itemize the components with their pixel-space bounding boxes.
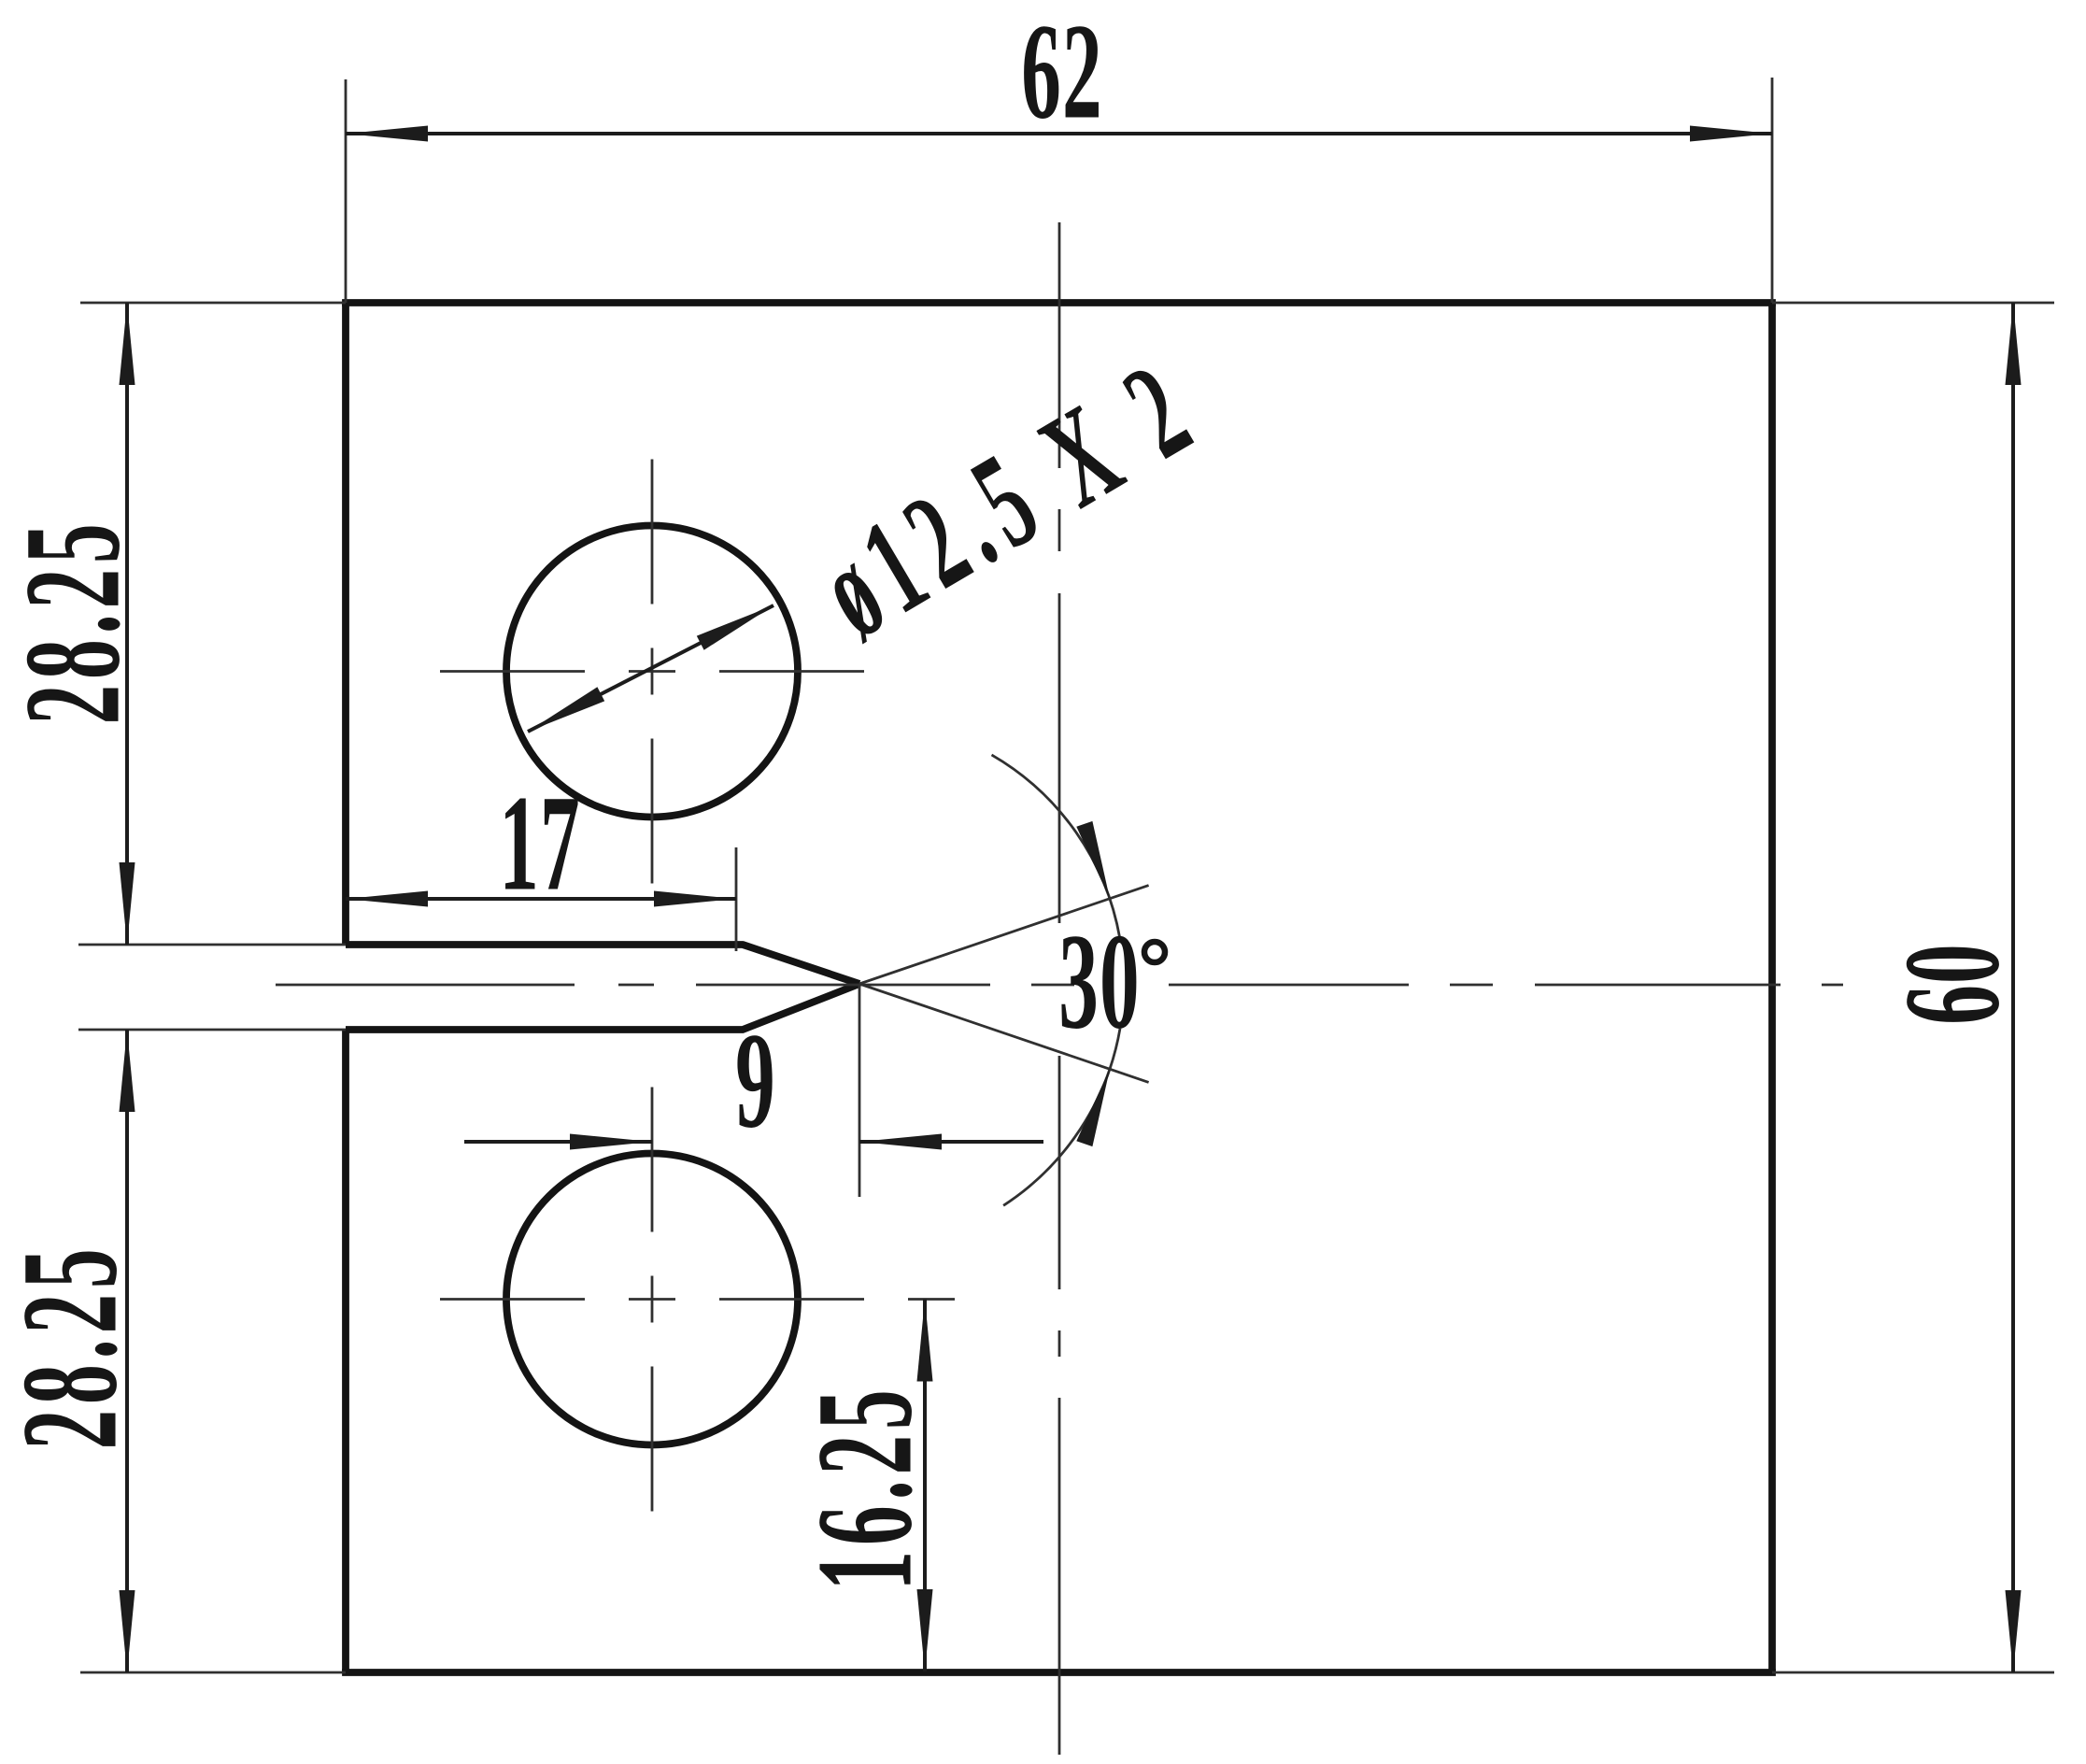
upper hole vertical centerline xyxy=(651,455,654,885)
dim 28.25 bottom line xyxy=(125,1030,129,1672)
lower hole xyxy=(506,1154,798,1445)
notch top edge xyxy=(346,945,859,984)
lower hole horizontal centerline xyxy=(435,1298,971,1301)
left edge extension above xyxy=(345,79,348,303)
svg-text:62: 62 xyxy=(1021,0,1103,147)
dim 9 right line xyxy=(859,1140,1043,1144)
dim 62 left arrow xyxy=(346,126,428,142)
bottom edge extension right xyxy=(1772,1672,2054,1674)
dim 17 line xyxy=(346,897,736,901)
bottom edge extension left xyxy=(80,1672,346,1674)
dim 9 left arrow xyxy=(570,1134,652,1150)
angle arc lower arrow xyxy=(1076,1069,1110,1146)
dim 28.25 top up arrow xyxy=(120,303,135,385)
right edge extension above xyxy=(1771,78,1774,303)
main vertical centerline xyxy=(1058,222,1061,1755)
dim 16.25 text xyxy=(788,1385,941,1591)
top edge extension right xyxy=(1772,302,2054,305)
angle degree symbol xyxy=(1144,942,1165,962)
dim 60 text xyxy=(1876,943,2028,1025)
dim 28.25 bottom text xyxy=(0,1244,145,1450)
dim 60 line xyxy=(2011,303,2015,1672)
svg-text:28.25: 28.25 xyxy=(0,519,148,725)
diameter leader line xyxy=(528,605,773,732)
svg-text:16.25: 16.25 xyxy=(788,1385,941,1591)
plate right edge xyxy=(1768,303,1776,1672)
plate left edge lower xyxy=(342,1030,349,1672)
upper hole horizontal centerline xyxy=(435,670,866,673)
angle arc lower xyxy=(1003,1029,1120,1206)
notch bottom edge xyxy=(346,984,859,1030)
main horizontal centerline xyxy=(276,984,1843,987)
angle 30 text xyxy=(1058,905,1141,1058)
notch top extension left xyxy=(78,944,346,946)
diameter lower-left arrow xyxy=(528,687,604,732)
dim 60 top arrow xyxy=(2006,303,2022,385)
top edge extension left xyxy=(80,302,346,305)
svg-text:60: 60 xyxy=(1876,943,2028,1025)
dim 17 right extension xyxy=(735,847,738,951)
dim 62 right arrow xyxy=(1690,126,1772,142)
dim 16.25 down arrow xyxy=(917,1589,933,1672)
dim 9 text xyxy=(735,1004,776,1157)
dim 17 text xyxy=(499,767,581,919)
svg-text:28.25: 28.25 xyxy=(0,1244,145,1450)
dim 28.25 bottom down arrow xyxy=(120,1590,135,1672)
svg-text:9: 9 xyxy=(735,1004,776,1157)
dim 60 bottom arrow xyxy=(2006,1590,2022,1672)
dim 16.25 up arrow xyxy=(917,1300,933,1382)
dim 9 left line xyxy=(464,1140,652,1144)
diameter text xyxy=(795,330,1220,666)
notch angle upper leg xyxy=(859,886,1149,984)
dim 28.25 bottom up arrow xyxy=(120,1030,135,1112)
dim 17 right arrow xyxy=(654,891,736,907)
svg-text:30: 30 xyxy=(1058,905,1141,1058)
notch bottom extension left xyxy=(78,1029,346,1031)
angle arc upper arrow xyxy=(1076,821,1110,899)
dim 17 left arrow xyxy=(346,891,428,907)
upper hole xyxy=(506,526,798,818)
dim 62 text xyxy=(1021,0,1103,147)
dim 28.25 top down arrow xyxy=(120,862,135,945)
dim 62 line xyxy=(346,132,1772,135)
angle arc upper xyxy=(992,755,1120,938)
plate bottom edge xyxy=(342,1669,1776,1676)
dim 16.25 line xyxy=(923,1300,927,1672)
diameter upper-right arrow xyxy=(697,605,773,650)
dim 28.25 top line xyxy=(125,303,129,945)
plate top edge xyxy=(342,299,1776,306)
dim 9 right arrow xyxy=(859,1134,942,1150)
dim 28.25 top text xyxy=(0,519,148,725)
notch tip extension xyxy=(859,984,861,1197)
lower hole vertical centerline xyxy=(651,1086,654,1520)
svg-text:17: 17 xyxy=(499,767,581,919)
plate left edge upper xyxy=(342,303,349,945)
notch angle lower leg xyxy=(859,984,1149,1082)
